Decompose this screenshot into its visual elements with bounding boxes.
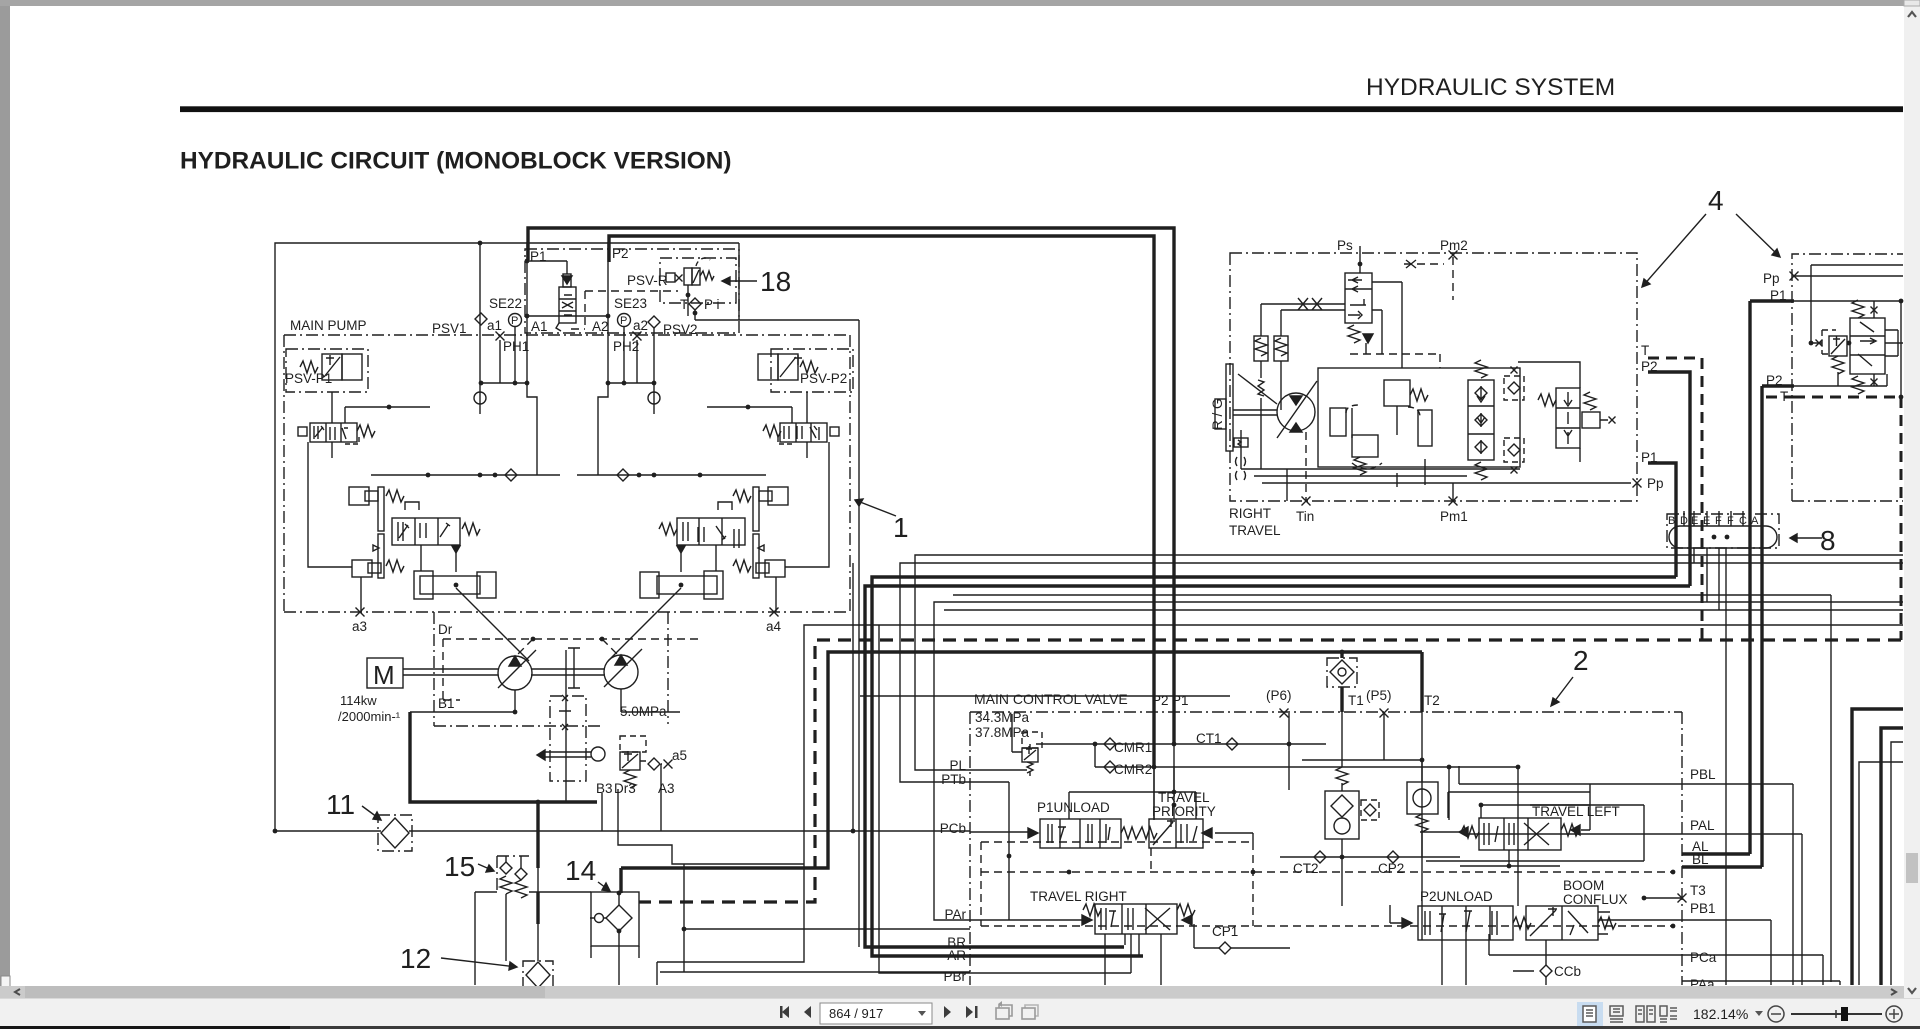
svg-text:P2: P2 (1641, 359, 1658, 374)
svg-text:a2: a2 (633, 318, 648, 333)
svg-text:11: 11 (326, 789, 355, 820)
svg-text:HYDRAULIC SYSTEM: HYDRAULIC SYSTEM (1366, 74, 1615, 101)
svg-text:A3: A3 (658, 781, 675, 796)
svg-text:PTb: PTb (941, 772, 966, 787)
svg-text:P1: P1 (1641, 450, 1658, 465)
svg-text:C: C (1739, 515, 1747, 527)
svg-text:37.8MPa: 37.8MPa (975, 725, 1030, 740)
svg-text:a1: a1 (487, 318, 502, 333)
svg-text:(P6): (P6) (1266, 688, 1292, 703)
svg-text:Pm2: Pm2 (1440, 238, 1468, 253)
svg-text:P1: P1 (1770, 288, 1787, 303)
svg-text:BOOM: BOOM (1563, 878, 1604, 893)
svg-text:CCb: CCb (1554, 964, 1581, 979)
svg-text:SE23: SE23 (614, 296, 647, 311)
svg-text:B: B (1668, 515, 1675, 527)
svg-text:HYDRAULIC CIRCUIT (MONOBLOCK V: HYDRAULIC CIRCUIT (MONOBLOCK VERSION) (180, 148, 731, 175)
svg-text:PAr: PAr (944, 907, 966, 922)
svg-text:B3: B3 (596, 781, 613, 796)
svg-text:TRAVEL RIGHT: TRAVEL RIGHT (1030, 889, 1127, 904)
svg-text:TRAVEL: TRAVEL (1158, 790, 1210, 805)
svg-text:864 / 917: 864 / 917 (829, 1006, 883, 1021)
svg-text:PL: PL (949, 758, 966, 773)
svg-text:PCa: PCa (1690, 950, 1717, 965)
svg-text:D: D (1680, 515, 1688, 527)
svg-text:A: A (1751, 515, 1759, 527)
svg-text:Dr3: Dr3 (614, 781, 636, 796)
svg-text:F: F (1727, 515, 1734, 527)
svg-text:12: 12 (400, 943, 431, 974)
svg-text:T2: T2 (1424, 693, 1440, 708)
svg-text:PH1: PH1 (503, 339, 529, 354)
svg-text:P1UNLOAD: P1UNLOAD (1037, 800, 1110, 815)
svg-text:P2UNLOAD: P2UNLOAD (1420, 889, 1493, 904)
svg-text:a3: a3 (352, 619, 367, 634)
svg-text:Ps: Ps (1337, 238, 1353, 253)
svg-text:15: 15 (444, 851, 475, 882)
svg-text:MAIN PUMP: MAIN PUMP (290, 318, 367, 333)
svg-text:5.0MPa: 5.0MPa (620, 704, 667, 719)
svg-text:Dr: Dr (438, 622, 453, 637)
svg-text:PH2: PH2 (613, 339, 639, 354)
svg-text:(P5): (P5) (1366, 688, 1392, 703)
svg-text:CP2: CP2 (1378, 861, 1404, 876)
svg-text:PB1: PB1 (1690, 901, 1716, 916)
svg-text:T: T (1641, 343, 1649, 358)
svg-text:Pp: Pp (1763, 271, 1780, 286)
svg-text:18: 18 (760, 266, 791, 297)
svg-text:PSV1: PSV1 (432, 321, 467, 336)
svg-text:CT1: CT1 (1196, 731, 1222, 746)
svg-text:/2000min-¹: /2000min-¹ (338, 709, 401, 724)
svg-text:PRIORITY: PRIORITY (1152, 804, 1216, 819)
svg-text:P1: P1 (1172, 693, 1189, 708)
svg-text:MAIN CONTROL VALVE: MAIN CONTROL VALVE (974, 691, 1128, 707)
svg-text:SE22: SE22 (489, 296, 522, 311)
svg-text:a4: a4 (766, 619, 782, 634)
svg-text:P: P (620, 315, 627, 327)
svg-text:B1: B1 (438, 696, 455, 711)
svg-text:T: T (680, 297, 688, 312)
svg-text:PBr: PBr (943, 969, 966, 984)
svg-text:PBL: PBL (1690, 767, 1716, 782)
svg-text:PSV-P2: PSV-P2 (800, 371, 847, 386)
svg-text:182.14%: 182.14% (1693, 1006, 1748, 1022)
svg-text:8: 8 (1820, 525, 1836, 556)
svg-text:RIGHT: RIGHT (1229, 506, 1271, 521)
svg-text:T3: T3 (1690, 883, 1706, 898)
svg-text:R / G: R / G (1210, 398, 1225, 430)
svg-text:T: T (1780, 389, 1788, 404)
svg-text:PCb: PCb (940, 821, 966, 836)
svg-text:P2: P2 (1152, 693, 1169, 708)
svg-text:E: E (1703, 515, 1710, 527)
svg-text:PSV2: PSV2 (663, 322, 698, 337)
svg-text:14: 14 (565, 855, 596, 886)
svg-text:2: 2 (1573, 645, 1589, 676)
svg-text:CMR2: CMR2 (1114, 762, 1152, 777)
svg-text:PSV-P1: PSV-P1 (285, 371, 332, 386)
svg-text:CMR1: CMR1 (1114, 740, 1152, 755)
svg-text:T1: T1 (1348, 693, 1364, 708)
svg-text:TRAVEL LEFT: TRAVEL LEFT (1532, 804, 1620, 819)
svg-text:P2: P2 (612, 246, 629, 261)
svg-text:P2: P2 (1766, 373, 1783, 388)
svg-text:1: 1 (893, 512, 909, 543)
svg-text:Pp: Pp (1647, 476, 1664, 491)
svg-text:34.3MPa: 34.3MPa (975, 710, 1030, 725)
svg-text:a5: a5 (672, 748, 687, 763)
svg-text:F: F (1715, 515, 1722, 527)
svg-text:4: 4 (1708, 185, 1724, 216)
svg-text:114kw: 114kw (340, 693, 377, 708)
svg-text:CONFLUX: CONFLUX (1563, 892, 1628, 907)
svg-text:P: P (511, 315, 518, 327)
svg-text:PSV-R: PSV-R (627, 273, 668, 288)
svg-text:BL: BL (1692, 852, 1709, 867)
svg-text:PAL: PAL (1690, 818, 1715, 833)
svg-text:P i: P i (704, 297, 720, 312)
svg-text:E: E (1691, 515, 1698, 527)
svg-text:CT2: CT2 (1293, 861, 1319, 876)
svg-text:TRAVEL: TRAVEL (1229, 523, 1281, 538)
svg-text:A1: A1 (531, 319, 548, 334)
svg-text:A2: A2 (592, 319, 609, 334)
svg-text:Tin: Tin (1296, 509, 1314, 524)
svg-text:P1: P1 (530, 249, 547, 264)
svg-text:CP1: CP1 (1212, 924, 1238, 939)
svg-text:M: M (373, 660, 395, 690)
svg-text:Pm1: Pm1 (1440, 509, 1468, 524)
svg-text:AR: AR (947, 948, 966, 963)
